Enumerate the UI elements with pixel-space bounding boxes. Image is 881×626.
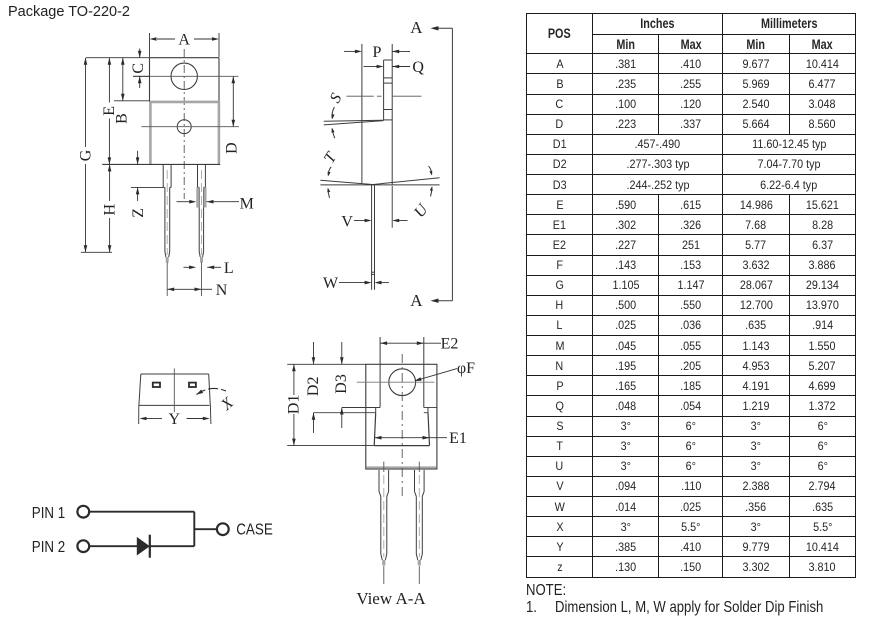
dimension W bbox=[323, 275, 389, 292]
note text bbox=[526, 583, 575, 599]
dimension E2 bbox=[380, 336, 458, 353]
pin 1 terminal bbox=[77, 506, 89, 518]
view A-A lead centerlines bbox=[384, 462, 420, 584]
svg-text:CASE: CASE bbox=[236, 522, 273, 539]
svg-text:P: P bbox=[372, 44, 381, 61]
svg-text:Q: Q bbox=[412, 59, 424, 76]
dimension D3 bbox=[333, 342, 350, 428]
section line A-A bbox=[410, 18, 452, 310]
svg-text:E1: E1 bbox=[449, 430, 467, 447]
front view mounting hole bbox=[171, 63, 197, 89]
dimension M bbox=[177, 196, 254, 213]
view A-A tab notch and slant edges bbox=[314, 408, 437, 446]
wire diode to junction bbox=[150, 545, 195, 547]
svg-text:Y: Y bbox=[169, 411, 181, 428]
front view left lead bbox=[163, 164, 171, 262]
view A-A left lead bbox=[379, 470, 389, 566]
svg-text:S: S bbox=[327, 91, 346, 106]
side view tab profile bbox=[384, 60, 393, 120]
side view lead bbox=[372, 185, 375, 290]
wire junction vertical bbox=[193, 512, 195, 547]
svg-text:D1: D1 bbox=[286, 395, 303, 415]
lead tip centerline extensions bbox=[167, 262, 201, 296]
svg-text:C: C bbox=[130, 63, 147, 74]
solder dip band on right lead bbox=[196, 187, 206, 207]
angle X indicator bbox=[197, 388, 238, 414]
wire junction to case bbox=[194, 528, 217, 530]
front view vertical centerline bbox=[183, 49, 185, 199]
case terminal bbox=[217, 523, 229, 535]
svg-text:H: H bbox=[101, 203, 118, 215]
svg-text:N: N bbox=[216, 282, 228, 299]
svg-text:φF: φF bbox=[457, 360, 475, 377]
svg-text:Z: Z bbox=[130, 208, 147, 218]
svg-text:X: X bbox=[217, 394, 237, 415]
dimension A bbox=[150, 32, 220, 58]
svg-text:E: E bbox=[101, 106, 118, 116]
svg-text:D: D bbox=[224, 142, 241, 154]
dimension V bbox=[341, 186, 407, 230]
dimension E1 bbox=[375, 430, 467, 447]
diode (anode pin 2, cathode to case) bbox=[137, 535, 150, 558]
svg-text:L: L bbox=[224, 260, 234, 277]
svg-text:M: M bbox=[240, 196, 254, 213]
angle T indicator bbox=[321, 149, 341, 198]
dimension Q bbox=[364, 59, 425, 76]
svg-text:E2: E2 bbox=[441, 336, 459, 353]
svg-text:PIN 1: PIN 1 bbox=[32, 505, 65, 522]
svg-text:G: G bbox=[77, 149, 94, 161]
svg-text:A: A bbox=[178, 32, 190, 49]
svg-text:View A-A: View A-A bbox=[356, 589, 426, 608]
dimension D bbox=[224, 76, 241, 154]
svg-text:V: V bbox=[341, 213, 353, 230]
bottom view lead cross-sections bbox=[153, 383, 196, 387]
front view small hole centerline bbox=[141, 126, 239, 128]
angle U indicator bbox=[411, 166, 433, 221]
view A-A right lead bbox=[415, 470, 425, 566]
front view right lead bbox=[198, 164, 206, 262]
view A-A hole centerlines bbox=[357, 354, 435, 498]
dimension E bbox=[101, 58, 118, 165]
dimension H bbox=[101, 164, 118, 252]
svg-text:D2: D2 bbox=[305, 377, 322, 397]
dimension Z bbox=[130, 151, 163, 218]
front view tab outline bbox=[150, 58, 220, 101]
svg-text:D3: D3 bbox=[333, 374, 350, 394]
dimension G bbox=[77, 58, 150, 253]
dimension D1 bbox=[286, 364, 375, 445]
view A-A body outline bbox=[366, 364, 437, 469]
angle S indicator bbox=[324, 91, 384, 139]
pin 2 terminal bbox=[77, 540, 89, 552]
front view body outline bbox=[102, 101, 220, 164]
side view body profile bbox=[320, 44, 439, 185]
dimension Y bbox=[140, 411, 210, 428]
front view hole horizontal centerline bbox=[133, 75, 239, 77]
svg-text:T: T bbox=[321, 149, 341, 166]
dimension C bbox=[130, 49, 150, 89]
front view small hole bbox=[177, 120, 191, 134]
page title Package TO-220-2 bbox=[8, 4, 130, 20]
dimension L bbox=[184, 260, 234, 277]
dimension B bbox=[114, 58, 150, 124]
dimension N bbox=[167, 282, 228, 299]
svg-text:W: W bbox=[323, 275, 339, 292]
wire pin1 to junction bbox=[90, 511, 195, 513]
svg-text:PIN 2: PIN 2 bbox=[32, 539, 65, 556]
dimension D2 bbox=[305, 342, 322, 433]
dimension table bbox=[526, 13, 856, 578]
side view hole centerline bbox=[346, 95, 373, 97]
wire pin2 to diode bbox=[90, 545, 138, 547]
svg-text:U: U bbox=[411, 200, 432, 221]
svg-text:A: A bbox=[410, 18, 423, 37]
svg-text:A: A bbox=[410, 291, 423, 310]
view A-A mounting hole bbox=[389, 369, 416, 396]
view A-A tab edges bbox=[380, 337, 424, 408]
bottom view outline bbox=[139, 374, 211, 424]
label phi F with leader bbox=[414, 360, 475, 381]
bottom view centerline bbox=[173, 368, 175, 412]
dimension P bbox=[344, 44, 410, 61]
